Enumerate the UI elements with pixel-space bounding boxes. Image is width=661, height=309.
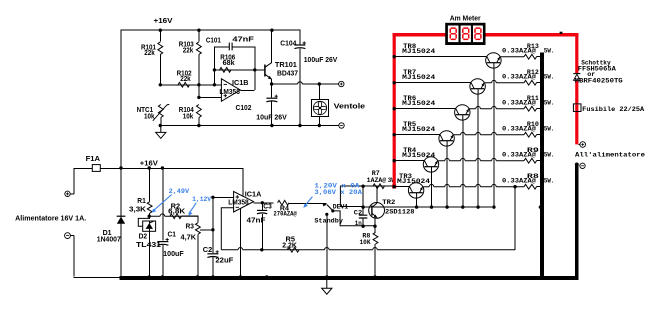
svg-text:LM358: LM358 bbox=[219, 89, 240, 96]
wire IC1A plus input bbox=[213, 196, 234, 198]
node base rail TR8 bbox=[492, 205, 495, 208]
node ground bus x212.9 bbox=[211, 275, 214, 278]
fuse F1A bbox=[92, 165, 100, 172]
ammeter display box bbox=[445, 23, 485, 45]
svg-text:MBRF40250TG: MBRF40250TG bbox=[575, 78, 623, 85]
wire base rail TR2 to TR8 bbox=[363, 206, 492, 208]
resistor R2 6,8K bbox=[170, 214, 182, 219]
svg-text:+16V: +16V bbox=[140, 161, 158, 168]
wire feedback box top right segment bbox=[232, 46, 255, 48]
wire emitter row TR4 with hops bbox=[438, 158, 524, 160]
svg-text:5W.: 5W. bbox=[544, 126, 555, 133]
node top rail TR101 collector bbox=[270, 29, 273, 32]
resistor R5 2,2K bbox=[288, 247, 300, 252]
transistor TR3 MJ15024 bbox=[408, 183, 423, 198]
svg-text:IC1A: IC1A bbox=[245, 192, 261, 199]
wire collector row TR6 bbox=[394, 108, 456, 110]
resistor R4 270ohm bbox=[278, 200, 290, 205]
capacitor C2 22uF bbox=[207, 253, 218, 255]
svg-text:2SD1128: 2SD1128 bbox=[385, 209, 415, 217]
svg-text:5W.: 5W. bbox=[544, 178, 555, 185]
wire plus input column and C2 bbox=[212, 197, 214, 253]
terminal fan plus bbox=[339, 81, 344, 86]
svg-text:47nF: 47nF bbox=[232, 36, 254, 43]
fuse Fusibile 22/25A bbox=[573, 104, 581, 112]
svg-text:LM358: LM358 bbox=[228, 200, 249, 207]
svg-text:TL431: TL431 bbox=[136, 240, 161, 249]
svg-text:68k: 68k bbox=[223, 60, 235, 67]
svg-text:1n: 1n bbox=[355, 220, 362, 228]
svg-text:1,12V: 1,12V bbox=[192, 196, 212, 204]
node ground bus x162.4 bbox=[161, 275, 164, 278]
node rail left rail bbox=[119, 166, 122, 169]
svg-text:R12: R12 bbox=[527, 69, 539, 76]
svg-text:+16V: +16V bbox=[154, 18, 173, 25]
resistor R104 bbox=[197, 105, 202, 118]
transistor TR2 2SD1128 bbox=[369, 203, 385, 219]
terminal output plus bbox=[578, 144, 580, 146]
svg-text:5W.: 5W. bbox=[544, 74, 555, 81]
wire collector row TR8 bbox=[394, 56, 487, 58]
wire IC1B output bbox=[240, 89, 254, 91]
wire feedback row bbox=[221, 248, 515, 250]
svg-text:10k: 10k bbox=[144, 113, 155, 120]
wire IC1B plus input bbox=[198, 96, 221, 98]
ground symbol standby bbox=[326, 280, 328, 289]
wire collector row TR5 bbox=[394, 134, 440, 136]
wire collector row TR3 bbox=[394, 186, 410, 188]
resistor R101 bbox=[159, 30, 161, 42]
ammeter digit 8 #1 bbox=[451, 27, 456, 29]
wire base lead TR3 bbox=[416, 198, 418, 207]
resistor R3 4,7K bbox=[197, 216, 199, 223]
wire base lead TR5 bbox=[446, 146, 448, 207]
wire emitter row TR5 with hops bbox=[454, 132, 524, 134]
wire IC1A V- pin bbox=[239, 209, 241, 277]
wire thick right bus bbox=[575, 165, 579, 279]
node ground bus x326.8 bbox=[325, 275, 328, 278]
node rail R1 column bbox=[148, 166, 151, 169]
ground symbol top section bbox=[160, 125, 162, 132]
wire feedback box right column bbox=[254, 46, 256, 90]
node base rail TR5 bbox=[445, 205, 448, 208]
wire emitter row TR3 with hops bbox=[423, 184, 524, 186]
capacitor C2 1n bbox=[359, 215, 368, 218]
svg-text:TR101: TR101 bbox=[275, 62, 297, 69]
svg-text:5W.: 5W. bbox=[544, 100, 555, 107]
wire emitter row TR8 with hops bbox=[501, 56, 524, 58]
svg-text:R11: R11 bbox=[527, 95, 539, 102]
node output bus bbox=[539, 206, 542, 209]
svg-text:100uF: 100uF bbox=[163, 251, 184, 258]
transistor TR101 BD437 bbox=[264, 65, 266, 77]
wire red collector bus bbox=[394, 35, 577, 188]
wire TR101 emitter bbox=[271, 79, 273, 84]
svg-text:22k: 22k bbox=[180, 76, 191, 83]
svg-text:C2: C2 bbox=[354, 210, 363, 218]
transistor TR5 MJ15024 bbox=[439, 131, 454, 146]
svg-text:MJ15024: MJ15024 bbox=[402, 74, 435, 82]
transistor TR4 MJ15024 bbox=[423, 157, 438, 172]
wire emitter row TR6 with hops bbox=[470, 106, 524, 108]
switch DEV1 bbox=[323, 203, 327, 206]
terminal fan minus bbox=[319, 125, 338, 127]
wire feedback box left column bbox=[213, 46, 215, 85]
wire lower +16V rail bbox=[74, 168, 243, 170]
wire base lead TR4 bbox=[431, 172, 433, 207]
svg-text:Alimentatore 16V 1A.: Alimentatore 16V 1A. bbox=[15, 215, 86, 222]
node top rail R103 bbox=[197, 29, 200, 32]
capacitor C101 bbox=[229, 43, 232, 51]
transistor TR7 MJ15024 bbox=[470, 79, 485, 94]
node ground bus x197.4 bbox=[196, 275, 199, 278]
wire IC1A V+ pin bbox=[242, 168, 244, 196]
ammeter digit 8 #3 bbox=[475, 27, 480, 29]
wire TR101 base bbox=[254, 69, 265, 71]
wire tick on red wire bbox=[560, 32, 563, 34]
transistor TR6 MJ15024 bbox=[455, 105, 470, 120]
svg-text:Am Meter: Am Meter bbox=[450, 16, 481, 23]
wire minus row IC1B bbox=[160, 84, 221, 86]
ammeter digit 8 #2 bbox=[463, 27, 468, 29]
svg-text:C104: C104 bbox=[280, 41, 296, 48]
svg-text:IC1B: IC1B bbox=[232, 80, 249, 87]
svg-text:C2: C2 bbox=[203, 247, 213, 254]
wire R3 tap to plus column bbox=[200, 229, 213, 231]
svg-text:22k: 22k bbox=[144, 50, 155, 57]
wire R7 branch bbox=[339, 186, 341, 206]
svg-text:2,2K: 2,2K bbox=[282, 243, 297, 250]
svg-text:5W.: 5W. bbox=[544, 152, 555, 159]
node R106 row left bbox=[213, 68, 216, 71]
svg-text:Ventole: Ventole bbox=[334, 103, 366, 110]
wire emitter row TR7 with hops bbox=[485, 80, 524, 82]
resistor R106 bbox=[214, 69, 255, 71]
ammeter digit cell 1 bbox=[448, 26, 459, 43]
svg-text:3,3K: 3,3K bbox=[129, 206, 146, 213]
svg-text:All'alimentatore: All'alimentatore bbox=[575, 152, 645, 160]
svg-text:C101: C101 bbox=[206, 38, 221, 45]
shunt regulator D2 TL431 bbox=[143, 221, 156, 231]
wire collector row TR4 bbox=[394, 160, 425, 162]
node base rail TR7 bbox=[476, 205, 479, 208]
wire IC1A output row bbox=[254, 202, 274, 204]
svg-text:C1: C1 bbox=[168, 232, 177, 239]
wire standby branch to ground bbox=[326, 214, 328, 276]
op-amp IC1B bbox=[221, 79, 240, 102]
svg-text:R10: R10 bbox=[527, 121, 539, 128]
wire base lead TR8 bbox=[493, 68, 495, 207]
svg-text:22uF: 22uF bbox=[215, 258, 233, 265]
resistor R8 10K bbox=[373, 232, 378, 244]
svg-text:TR2: TR2 bbox=[382, 199, 395, 207]
node top rail R101 bbox=[159, 29, 162, 32]
svg-text:MJ15024: MJ15024 bbox=[397, 178, 430, 186]
terminal output minus bbox=[580, 163, 585, 168]
wire R7 branch to TR2 base bbox=[340, 206, 363, 208]
node base rail TR4 bbox=[430, 205, 433, 208]
node base rail TR6 bbox=[461, 205, 464, 208]
transistor TR8 MJ15024 bbox=[486, 53, 501, 68]
svg-text:100uF 26V: 100uF 26V bbox=[304, 57, 338, 64]
node rail C1 column bbox=[161, 166, 164, 169]
wire row R1-R2-R3 with hop over C1 bbox=[149, 214, 198, 216]
wire base lead TR6 bbox=[462, 120, 464, 207]
svg-text:BD437: BD437 bbox=[277, 70, 298, 77]
capacitor C1 100uF bbox=[162, 168, 164, 241]
resistor R1 3,3K bbox=[149, 168, 151, 202]
wire top +16V rail bbox=[121, 29, 301, 31]
diode D1 1N4007 bbox=[117, 215, 126, 217]
svg-text:10k: 10k bbox=[183, 113, 194, 120]
ammeter red stub right bbox=[485, 33, 578, 36]
svg-text:1AZA@: 1AZA@ bbox=[367, 177, 387, 184]
terminal input plus bbox=[65, 191, 70, 196]
node R1 bottom bbox=[149, 213, 151, 219]
svg-text:MJ15024: MJ15024 bbox=[402, 48, 435, 56]
svg-text:MJ15024: MJ15024 bbox=[402, 152, 435, 160]
svg-text:47nF: 47nF bbox=[247, 217, 266, 224]
wire thick ground bus bbox=[120, 276, 579, 280]
svg-text:R13: R13 bbox=[527, 43, 539, 50]
wire TR101 collector bbox=[271, 30, 273, 63]
svg-text:3,06V x 20A: 3,06V x 20A bbox=[314, 189, 362, 196]
wire TR2 base column and C2 1n bbox=[362, 186, 364, 206]
schottky diode bbox=[573, 73, 581, 81]
wire collector row TR7 bbox=[394, 82, 471, 84]
fan Ventole bbox=[318, 84, 320, 100]
capacitor C3 47nF bbox=[261, 203, 263, 210]
resistor R7 1ohm 3W bbox=[373, 184, 385, 189]
svg-text:Fusibile 22/25A: Fusibile 22/25A bbox=[582, 106, 644, 113]
ammeter red stub left bbox=[393, 33, 446, 36]
svg-text:4,7K: 4,7K bbox=[181, 234, 197, 241]
ammeter digit cell 2 bbox=[461, 26, 471, 43]
node ground bus x149.2 bbox=[148, 275, 151, 278]
svg-text:R3: R3 bbox=[186, 224, 195, 231]
node R106 row right bbox=[253, 68, 256, 71]
svg-text:C102: C102 bbox=[236, 105, 252, 112]
wire TR101 emitter row to fan terminal bbox=[270, 82, 273, 85]
node ground bus x240.4 bbox=[239, 275, 242, 278]
svg-text:MJ15024: MJ15024 bbox=[402, 126, 435, 134]
node ground bus x375.0 bbox=[373, 275, 376, 278]
node base rail TR3 bbox=[415, 205, 418, 208]
wire thick output bus bbox=[540, 53, 544, 279]
svg-text:10K: 10K bbox=[360, 239, 372, 247]
wire left rail bbox=[120, 30, 122, 277]
svg-text:5W.: 5W. bbox=[544, 48, 555, 55]
svg-text:10uF 26V: 10uF 26V bbox=[256, 114, 287, 121]
svg-text:22k: 22k bbox=[183, 47, 194, 54]
node red R7 bbox=[392, 185, 396, 189]
svg-text:C3: C3 bbox=[263, 204, 272, 211]
wire feedback sense to R8 row bbox=[514, 186, 516, 250]
capacitor C104 bbox=[299, 30, 301, 46]
wire base lead TR7 bbox=[477, 94, 479, 207]
svg-text:Standby: Standby bbox=[314, 218, 343, 225]
svg-text:1N4007: 1N4007 bbox=[97, 237, 121, 244]
wire ground rail top section bbox=[160, 125, 339, 127]
resistor R102 bbox=[178, 82, 190, 87]
ammeter digit cell 3 bbox=[473, 26, 483, 43]
svg-text:F1A: F1A bbox=[86, 156, 101, 163]
node ground bus x266.7 bbox=[265, 275, 268, 278]
svg-text:MJ15024: MJ15024 bbox=[402, 100, 435, 108]
terminal input minus bbox=[65, 233, 71, 239]
wire IC1A minus loop bbox=[221, 208, 233, 250]
capacitor C102 bbox=[271, 84, 273, 98]
thermistor NTC1 bbox=[158, 105, 163, 118]
svg-text:R9: R9 bbox=[527, 147, 539, 154]
svg-text:6,8K: 6,8K bbox=[168, 209, 185, 216]
wire feedback box top left segment bbox=[214, 46, 229, 48]
svg-text:FFSH5065A: FFSH5065A bbox=[578, 66, 616, 73]
resistor R103 bbox=[198, 30, 200, 42]
svg-text:270AZA@: 270AZA@ bbox=[273, 211, 297, 218]
svg-text:R1: R1 bbox=[137, 198, 146, 205]
wire DEV1 to TR2 emitter row bbox=[333, 211, 377, 226]
svg-text:R8: R8 bbox=[527, 173, 539, 180]
